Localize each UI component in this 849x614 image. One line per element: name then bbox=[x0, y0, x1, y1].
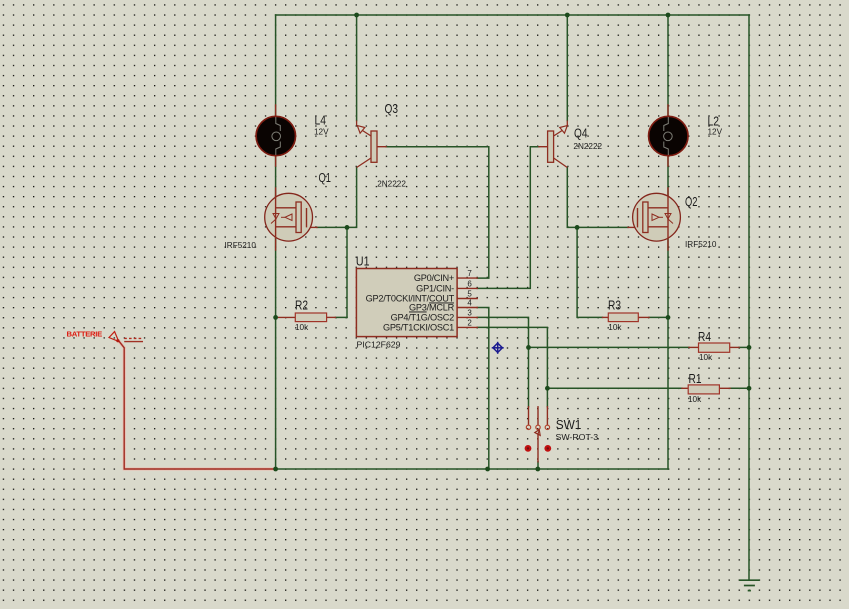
junction pin2 riser / R1 row bbox=[545, 386, 550, 391]
wire pin2 riser to R1/SW bbox=[477, 327, 547, 406]
wire Q1 gate row bbox=[317, 226, 347, 228]
pin stub U1 pin 7 GP0 bbox=[457, 277, 477, 279]
svg-text:2: 2 bbox=[467, 318, 472, 327]
resistor R3 bbox=[608, 313, 638, 322]
junction bottom rail / pin4 riser bbox=[485, 467, 490, 472]
pin stub U1 pin 5 GP2 (unconnected) bbox=[457, 298, 477, 300]
wire SW1 pole to bottom rail bbox=[537, 462, 539, 469]
junction top rail / L2 bbox=[666, 13, 671, 18]
pin stub Q1 drain (bottom) bbox=[275, 240, 277, 250]
pin stub L4 pin 2 (bottom) bbox=[275, 155, 277, 166]
svg-text:3: 3 bbox=[467, 308, 472, 317]
wire Q4 base to pin6 riser bbox=[477, 147, 539, 289]
pin stub R4 right bbox=[730, 346, 739, 348]
resistor R2 bbox=[295, 313, 326, 322]
junction right rail / R4 right bbox=[747, 345, 752, 350]
transistor Q3 bbox=[357, 121, 377, 168]
mosfet Q2 bbox=[633, 193, 681, 241]
switch SW1 contact circle 2 bbox=[536, 425, 540, 429]
svg-text:6: 6 bbox=[467, 279, 472, 288]
pin stub Q4 base bbox=[539, 146, 548, 148]
switch SW1 contact circle 1 bbox=[526, 425, 530, 429]
svg-text:10k: 10k bbox=[688, 395, 702, 404]
svg-text:7: 7 bbox=[467, 269, 472, 278]
svg-text:Q2: Q2 bbox=[685, 195, 698, 209]
wire Q4 collector to Q2 gate node bbox=[567, 168, 577, 228]
pin stub R2 left bbox=[276, 316, 296, 318]
wire Q4 emitter drop bbox=[566, 15, 568, 121]
pin stub Q1 gate bbox=[308, 226, 317, 228]
wire top rail bbox=[276, 14, 749, 16]
svg-text:12V: 12V bbox=[314, 128, 329, 137]
wire right rail bbox=[748, 15, 750, 580]
svg-text:PIC12F629: PIC12F629 bbox=[357, 340, 401, 350]
wire right leg through L2/Q2 bbox=[667, 15, 669, 469]
pin stub SW1 pole bbox=[537, 434, 539, 462]
svg-text:L2: L2 bbox=[708, 115, 720, 129]
svg-text:10k: 10k bbox=[295, 323, 309, 332]
lamp L4 bbox=[256, 116, 295, 155]
pin stub Q2 source (top) bbox=[667, 188, 669, 198]
pin stub R1 right bbox=[719, 387, 730, 389]
wire R3 right link bbox=[649, 316, 668, 318]
svg-text:R3: R3 bbox=[608, 298, 621, 312]
svg-text:Q4: Q4 bbox=[574, 127, 588, 141]
svg-text:R2: R2 bbox=[295, 298, 308, 312]
pin stub Q1 source (top) bbox=[275, 188, 277, 198]
wire R2 right link bbox=[335, 316, 347, 318]
pin stub Q3 base bbox=[377, 146, 386, 148]
junction right rail / R1 right bbox=[747, 386, 752, 391]
junction bottom rail / SW1 pole bbox=[535, 467, 540, 472]
wire Q3 emitter drop bbox=[356, 15, 358, 121]
svg-text:IRF5210: IRF5210 bbox=[685, 240, 717, 249]
terminal BATTERIE placeholder dashes bbox=[124, 338, 143, 341]
junction Q3 collector / Q1 gate node bbox=[345, 225, 350, 230]
svg-text:2N2222: 2N2222 bbox=[573, 142, 602, 151]
pin stub SW1 contact 2 (unconnected above) bbox=[537, 407, 539, 425]
op-amp/IC U1 PIC12F629 body bbox=[356, 269, 457, 337]
junction top rail / Q3 emitter bbox=[354, 13, 359, 18]
pin stub SW1 contact 1 bbox=[528, 407, 530, 425]
pin stub SW1 contact 3 bbox=[546, 407, 548, 425]
svg-text:R1: R1 bbox=[689, 372, 702, 386]
svg-text:10k: 10k bbox=[699, 353, 713, 362]
pin stub Q2 gate bbox=[628, 226, 636, 228]
ground bbox=[739, 580, 760, 590]
terminal BATTERIE arrow symbol bbox=[109, 332, 120, 343]
mosfet Q1 bbox=[265, 193, 313, 241]
pin stub L2 pin 1 (top) bbox=[667, 105, 669, 117]
svg-text:GP4/T1G/OSC2: GP4/T1G/OSC2 bbox=[391, 312, 455, 322]
wire bottom rail bbox=[276, 468, 668, 470]
svg-text:GP5/T1CKI/OSC1: GP5/T1CKI/OSC1 bbox=[383, 322, 454, 332]
switch SW1 indicator dot right bbox=[544, 445, 551, 452]
wire R4 right link bbox=[739, 346, 749, 348]
svg-text:SW1: SW1 bbox=[556, 418, 582, 432]
svg-text:L4: L4 bbox=[315, 114, 327, 128]
junction right leg / R3 right bbox=[666, 315, 671, 320]
svg-text:GP3/MCLR: GP3/MCLR bbox=[409, 303, 455, 313]
wire battery red bbox=[119, 342, 275, 469]
wire R1 row bbox=[547, 387, 682, 389]
svg-text:GP0/CIN+: GP0/CIN+ bbox=[414, 273, 454, 283]
pin stub R2 right bbox=[327, 316, 336, 318]
resistor R4 bbox=[699, 343, 730, 352]
wire R1 right link bbox=[730, 387, 749, 389]
pin stub U1 pin 4 GP3 bbox=[457, 307, 477, 309]
svg-text:Q3: Q3 bbox=[385, 102, 399, 116]
switch SW1 wiper arrow bbox=[535, 430, 540, 436]
wire pin4 to bottom rail bbox=[477, 308, 489, 470]
wire node B down to R3 bbox=[577, 227, 602, 317]
junction Q4 collector / Q2 gate node bbox=[575, 225, 580, 230]
switch SW1 contact circle 3 bbox=[545, 425, 549, 429]
wire Q3 base to pin7 riser bbox=[386, 147, 489, 278]
wire left rail bbox=[275, 15, 277, 469]
pin stub R3 left bbox=[603, 316, 609, 318]
svg-text:5: 5 bbox=[467, 289, 472, 298]
wire R4 row bbox=[529, 346, 690, 348]
svg-text:12V: 12V bbox=[708, 128, 723, 137]
pin stub U1 pin 3 GP4 bbox=[457, 316, 477, 318]
svg-text:R4: R4 bbox=[698, 330, 711, 344]
resistor R1 bbox=[688, 385, 719, 394]
pin stub L2 pin 2 (bottom) bbox=[667, 155, 669, 166]
svg-text:2N2222: 2N2222 bbox=[377, 180, 406, 189]
junction pin3 riser / R4 row bbox=[526, 345, 531, 350]
pin stub R3 right bbox=[638, 316, 649, 318]
pin stub L4 pin 1 (top) bbox=[275, 105, 277, 117]
lamp L2 bbox=[649, 116, 688, 155]
origin marker bbox=[492, 342, 504, 354]
wire Q3 collector to Q1 gate node bbox=[347, 168, 357, 228]
svg-text:4: 4 bbox=[467, 298, 472, 307]
svg-text:GP1/CIN-: GP1/CIN- bbox=[416, 283, 454, 293]
svg-text:U1: U1 bbox=[356, 254, 370, 268]
junction left rail / R2 left bbox=[273, 315, 278, 320]
pin stub R4 left bbox=[689, 346, 699, 348]
svg-text:IRF5210: IRF5210 bbox=[225, 241, 257, 250]
svg-text:BATTERIE: BATTERIE bbox=[67, 329, 103, 338]
wire node A down to R2 bbox=[346, 227, 348, 317]
switch SW1 indicator dot left bbox=[525, 445, 532, 452]
svg-text:Q1: Q1 bbox=[319, 171, 332, 185]
wire pin3 riser to R4/SW bbox=[477, 317, 528, 406]
svg-text:SW-ROT-3: SW-ROT-3 bbox=[556, 433, 599, 442]
pin stub Q2 drain (bottom) bbox=[667, 240, 669, 250]
pin stub R1 left bbox=[682, 387, 688, 389]
junction top rail / Q4 emitter bbox=[565, 13, 570, 18]
pin stub U1 pin 2 GP5 bbox=[457, 326, 477, 328]
wire battery red halo bbox=[119, 342, 275, 469]
transistor Q4 bbox=[548, 121, 568, 168]
junction bottom rail / battery wire bbox=[273, 467, 278, 472]
pin stub U1 pin 6 GP1 bbox=[457, 287, 477, 289]
wire Q2 gate row bbox=[577, 226, 628, 228]
svg-text:10k: 10k bbox=[608, 323, 622, 332]
